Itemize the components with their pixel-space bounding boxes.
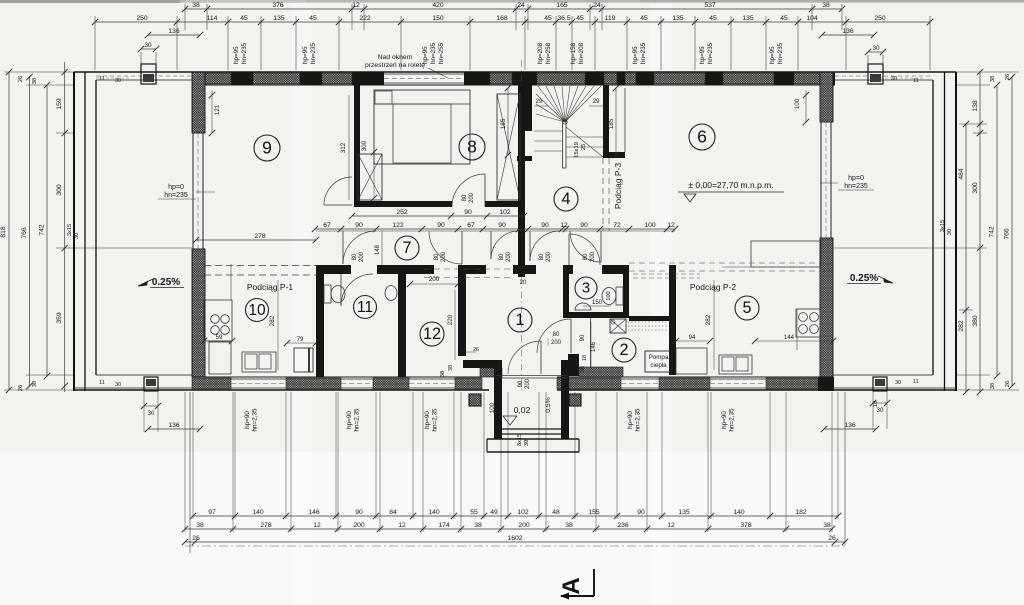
- svg-text:hn=235: hn=235: [777, 42, 784, 64]
- svg-text:80: 80: [553, 332, 560, 338]
- beam P-2 dashed: [629, 262, 833, 264]
- svg-text:24: 24: [517, 2, 525, 9]
- svg-text:hn=2,35: hn=2,35: [729, 408, 736, 431]
- dimension 144 kitchen5: [755, 340, 833, 342]
- svg-text:38: 38: [990, 383, 996, 389]
- beam dashes room2: [633, 273, 700, 275]
- svg-text:742: 742: [39, 224, 46, 236]
- wall bottom hatched segment 5: [557, 378, 621, 389]
- svg-text:102: 102: [499, 209, 511, 216]
- porch wall left: [494, 368, 502, 439]
- dimension row E (bottom rooms): [193, 515, 838, 517]
- wall top solid segment 9: [705, 72, 723, 85]
- svg-text:24: 24: [593, 2, 601, 9]
- door corridor 5: [570, 231, 601, 262]
- svg-text:25: 25: [581, 144, 587, 150]
- svg-text:80: 80: [499, 253, 505, 260]
- dimension 26 room12: [462, 351, 476, 353]
- svg-text:30: 30: [877, 408, 884, 414]
- svg-text:200: 200: [551, 340, 562, 346]
- wall porch left upper: [463, 360, 502, 368]
- svg-text:hn=2,35: hn=2,35: [354, 408, 361, 431]
- extension lines top row B: [94, 16, 96, 70]
- svg-text:49: 49: [490, 509, 498, 516]
- svg-text:90: 90: [518, 380, 524, 387]
- svg-text:236: 236: [617, 522, 629, 529]
- svg-text:90: 90: [541, 222, 549, 229]
- svg-text:20: 20: [520, 280, 527, 286]
- svg-text:30: 30: [891, 76, 897, 82]
- svg-text:94: 94: [689, 335, 696, 341]
- svg-text:przestrzeń na roletę: przestrzeń na roletę: [365, 62, 425, 69]
- window sill hatched segment top 9: [723, 73, 774, 84]
- svg-text:3x15: 3x15: [67, 224, 73, 237]
- wall room3 bottom: [563, 312, 629, 318]
- svg-text:2: 2: [619, 341, 628, 359]
- svg-text:Pompa: Pompa: [649, 354, 669, 361]
- svg-text:200: 200: [469, 192, 475, 203]
- svg-text:12: 12: [667, 222, 675, 229]
- porch steps: [502, 428, 561, 430]
- dimension 30 chimney top-right: [868, 51, 883, 53]
- svg-text:282: 282: [958, 320, 965, 332]
- door room1 hall: [537, 319, 571, 353]
- wall room2 top: [629, 316, 669, 321]
- svg-text:146: 146: [308, 509, 320, 516]
- left horizontal ticks top: [4, 71, 74, 73]
- svg-text:hn=235: hn=235: [164, 192, 188, 199]
- left dim line segments: [64, 62, 66, 392]
- svg-text:300: 300: [56, 184, 63, 196]
- window sill hatched segment top 4: [490, 73, 512, 84]
- svg-text:140: 140: [252, 509, 264, 516]
- svg-text:300: 300: [361, 140, 368, 151]
- counter room5 edge: [722, 266, 751, 268]
- kitchen10 stove: [211, 315, 220, 324]
- svg-text:hp=158: hp=158: [570, 42, 577, 64]
- svg-text:A: A: [558, 577, 585, 594]
- wall top solid segment 12: [192, 72, 205, 85]
- door room9: [324, 177, 352, 205]
- svg-text:45: 45: [544, 15, 552, 22]
- svg-text:300: 300: [972, 182, 979, 194]
- svg-text:hn=255: hn=255: [438, 42, 445, 64]
- svg-text:26: 26: [18, 76, 24, 82]
- svg-text:359: 359: [56, 312, 63, 324]
- svg-text:38: 38: [580, 366, 586, 372]
- wall bottom window 1: [231, 378, 286, 380]
- svg-text:3x15: 3x15: [517, 434, 523, 447]
- svg-text:45: 45: [709, 15, 717, 22]
- svg-text:200: 200: [518, 522, 530, 529]
- svg-text:38: 38: [32, 78, 38, 84]
- wall top solid segment 3: [352, 72, 384, 85]
- svg-text:29: 29: [593, 99, 600, 105]
- svg-text:80: 80: [539, 253, 545, 260]
- chimney top-left: [141, 64, 156, 84]
- sink room3: [575, 303, 591, 310]
- bottom extension lines rowF: [184, 392, 186, 532]
- svg-text:26: 26: [1005, 381, 1011, 387]
- wall corridor lower segment 7: [669, 265, 676, 274]
- wall top outer line: [74, 71, 956, 73]
- door room3: [569, 234, 600, 265]
- wall corridor lower segment 6: [602, 265, 629, 274]
- wall porch right upper: [568, 354, 579, 376]
- svg-text:36.5: 36.5: [557, 15, 570, 22]
- svg-text:90: 90: [498, 222, 506, 229]
- dimension 59 kitchen10: [204, 340, 232, 342]
- wall bottom window 4: [621, 378, 659, 380]
- svg-text:8: 8: [467, 136, 477, 156]
- svg-text:hn=2,35: hn=2,35: [432, 408, 439, 431]
- svg-text:79: 79: [297, 337, 304, 343]
- svg-text:11: 11: [913, 78, 919, 84]
- svg-text:hn=258: hn=258: [545, 42, 552, 64]
- svg-text:100: 100: [794, 98, 801, 109]
- wall room3 left: [563, 265, 569, 318]
- kitchen5 sink: [719, 355, 752, 374]
- svg-text:138: 138: [972, 100, 979, 112]
- wall bottom hatched segment 2: [286, 378, 341, 389]
- extension lines chimneys top: [140, 52, 142, 64]
- svg-text:10: 10: [248, 302, 266, 319]
- axis center dashed: [521, 60, 523, 85]
- svg-text:45: 45: [576, 15, 584, 22]
- wall room2 right: [669, 265, 676, 375]
- svg-text:30: 30: [524, 440, 530, 446]
- svg-text:282: 282: [705, 314, 712, 325]
- svg-text:30: 30: [895, 380, 901, 386]
- svg-text:174: 174: [438, 522, 450, 529]
- left dim line 766: [29, 77, 31, 386]
- right dim line 742: [996, 85, 998, 376]
- wall room8 bottom a: [354, 201, 452, 207]
- svg-text:0,02: 0,02: [514, 405, 531, 415]
- wall bottom inner line main: [204, 376, 482, 378]
- door corridor 3: [491, 231, 519, 259]
- dimension 282 room10: [277, 280, 279, 370]
- left dim line 818: [8, 72, 10, 390]
- svg-text:766: 766: [1004, 228, 1011, 240]
- room circle 12: [420, 322, 444, 346]
- dimension 220 room12: [454, 290, 456, 360]
- wall left main hatch lower: [192, 249, 205, 377]
- svg-text:26: 26: [828, 535, 836, 542]
- window sill hatched segment top 5: [537, 73, 585, 84]
- right horizontal ticks top: [956, 71, 1019, 73]
- paper fold highlight center: [650, 3, 672, 605]
- room circle 10: [246, 299, 269, 322]
- kitchen10 counter: [204, 300, 232, 341]
- svg-text:0.25%: 0.25%: [152, 277, 180, 288]
- svg-text:38: 38: [474, 522, 482, 529]
- svg-text:90: 90: [637, 509, 645, 516]
- kitchen10 sink: [242, 352, 276, 372]
- left horizontal tick mid: [56, 247, 192, 249]
- svg-text:150: 150: [592, 300, 603, 306]
- svg-text:11: 11: [99, 76, 105, 82]
- svg-text:100: 100: [644, 222, 656, 229]
- svg-text:72: 72: [613, 222, 621, 229]
- svg-text:hn=235: hn=235: [430, 42, 437, 64]
- svg-text:90: 90: [355, 222, 363, 229]
- kitchen5 upper counter: [751, 241, 821, 267]
- svg-text:222: 222: [359, 15, 371, 22]
- wall top solid segment 11: [821, 72, 835, 85]
- wall left main hatch upper: [192, 72, 205, 133]
- svg-text:119: 119: [605, 15, 616, 22]
- wall stair right: [603, 85, 609, 152]
- wardrobe X room8 left: [358, 154, 382, 200]
- svg-text:hp=0: hp=0: [168, 184, 184, 191]
- wall bottom inner line wings: [96, 374, 192, 376]
- svg-text:38: 38: [448, 365, 454, 371]
- left horizontal ticks bottom: [26, 374, 74, 376]
- room circle 7: [395, 236, 419, 260]
- svg-text:30: 30: [947, 229, 953, 235]
- svg-text:Podciąg P-2: Podciąg P-2: [690, 282, 737, 292]
- wall top solid segment 2: [300, 72, 322, 85]
- wall corridor lower segment 5: [566, 265, 573, 274]
- svg-text:102: 102: [517, 509, 529, 516]
- wall top inner line main: [192, 84, 835, 86]
- svg-text:84: 84: [389, 509, 397, 516]
- room circle 6: [689, 124, 715, 150]
- wall room2 partition: [590, 318, 592, 375]
- wall top solid segment 4: [464, 72, 490, 85]
- paper lower sheet tint: [0, 452, 1024, 605]
- svg-text:90: 90: [355, 509, 363, 516]
- dimension row F (bottom axes): [185, 528, 832, 530]
- right dim line 138/300/380: [979, 72, 981, 392]
- svg-text:250: 250: [136, 15, 148, 22]
- svg-text:140: 140: [428, 509, 440, 516]
- svg-text:26: 26: [192, 535, 200, 542]
- svg-text:90: 90: [580, 334, 586, 341]
- svg-text:90: 90: [437, 222, 445, 229]
- wall center duplex: [518, 207, 525, 277]
- glazing top room8: [384, 73, 464, 75]
- door corridor 4: [530, 231, 560, 261]
- svg-text:55: 55: [470, 509, 478, 516]
- bed room8: [374, 90, 470, 164]
- bottom extension lines rowG: [189, 392, 191, 553]
- svg-text:hp=95: hp=95: [302, 46, 309, 64]
- svg-text:122: 122: [392, 222, 404, 229]
- svg-text:± 0,00=27,70 m.n.p.m.: ± 0,00=27,70 m.n.p.m.: [688, 180, 773, 190]
- porch post left: [469, 394, 481, 406]
- shaft right edge: [624, 88, 626, 152]
- svg-text:420: 420: [432, 2, 444, 9]
- wall top solid segment 1: [231, 72, 253, 85]
- porch wall right: [561, 368, 569, 439]
- door front entrance: [508, 341, 541, 374]
- door room11: [341, 274, 373, 306]
- svg-text:537: 537: [704, 2, 716, 9]
- svg-text:1602: 1602: [507, 535, 522, 542]
- beam dashes room1: [424, 268, 514, 270]
- stair hub circle: [563, 120, 567, 124]
- room circle 5: [735, 296, 759, 320]
- pillow room8: [375, 91, 392, 104]
- left dim line 742: [46, 85, 48, 376]
- svg-text:38: 38: [565, 522, 573, 529]
- dimension 136 top-right: [822, 34, 874, 36]
- porch post right: [569, 394, 581, 406]
- chimney top-right: [868, 64, 883, 84]
- wall top wing dashes: [96, 75, 192, 77]
- svg-text:hn=235: hn=235: [640, 42, 647, 64]
- svg-text:38: 38: [823, 522, 831, 529]
- svg-text:135: 135: [678, 509, 690, 516]
- wall top inner line wings: [96, 79, 192, 81]
- svg-text:45: 45: [780, 15, 788, 22]
- wall right wing mid: [944, 72, 946, 391]
- svg-text:200: 200: [429, 276, 440, 283]
- svg-text:136: 136: [168, 422, 180, 429]
- svg-text:150: 150: [432, 15, 444, 22]
- svg-text:hp=95: hp=95: [699, 46, 706, 64]
- dimension 100 room6: [805, 90, 807, 122]
- wall bottom corner right: [818, 377, 834, 391]
- svg-text:0.25%: 0.25%: [850, 273, 878, 284]
- svg-text:80: 80: [462, 194, 468, 201]
- wardrobe X room8 right: [497, 94, 520, 200]
- wall corridor lower segment 1: [316, 265, 351, 274]
- extension lines top row A: [184, 4, 186, 30]
- dimension 136 top-left: [148, 34, 200, 36]
- svg-text:hn=235: hn=235: [844, 183, 868, 190]
- dim 30 bottom-right chimney: [873, 402, 887, 404]
- wall bottom window 5: [710, 378, 766, 380]
- svg-text:6: 6: [697, 126, 707, 146]
- svg-text:11: 11: [99, 380, 105, 386]
- svg-text:484: 484: [958, 168, 965, 180]
- svg-text:135: 135: [273, 15, 285, 22]
- svg-text:67: 67: [467, 222, 475, 229]
- svg-text:135: 135: [742, 15, 754, 22]
- svg-text:278: 278: [254, 233, 266, 240]
- svg-text:7: 7: [402, 239, 411, 257]
- dimension 79 fridge10: [287, 342, 316, 344]
- svg-text:30: 30: [144, 42, 152, 49]
- sink room11: [385, 286, 397, 301]
- svg-text:220: 220: [447, 314, 454, 325]
- svg-text:100: 100: [606, 291, 612, 300]
- svg-text:30: 30: [115, 78, 121, 84]
- porch level triangle: [503, 416, 517, 425]
- wall divider 12/1: [458, 265, 466, 356]
- svg-text:376: 376: [272, 2, 284, 9]
- dimension 148 corridor: [381, 231, 383, 265]
- chimney bottom extension: [143, 392, 145, 432]
- svg-text:26: 26: [473, 347, 479, 353]
- svg-text:5: 5: [742, 299, 751, 317]
- wall left wing outer: [73, 72, 75, 391]
- wall hatch right of porch: [579, 367, 623, 377]
- stair label 185 left: [507, 88, 509, 155]
- corridor upper line: [316, 230, 675, 232]
- svg-text:766: 766: [21, 227, 28, 239]
- kitchen5 stove: [799, 313, 808, 322]
- wall left main window: [192, 133, 194, 249]
- svg-text:hp=90: hp=90: [424, 411, 431, 429]
- chimney bottom-right: [873, 377, 887, 391]
- svg-text:742: 742: [989, 226, 996, 238]
- wall divider 10/11: [316, 265, 324, 377]
- svg-text:30: 30: [148, 411, 155, 417]
- wall stair left lower piece: [517, 156, 532, 161]
- room circle 2: [612, 338, 636, 362]
- door corridor 2 (room12): [429, 231, 462, 264]
- svg-text:26: 26: [1005, 74, 1011, 80]
- beam P-1 dashed: [204, 265, 318, 267]
- window sill hatched segment top 1: [205, 73, 231, 84]
- svg-text:hn=2,35: hn=2,35: [252, 408, 259, 431]
- svg-text:11: 11: [913, 379, 919, 385]
- svg-text:59: 59: [216, 335, 223, 341]
- svg-text:144: 144: [784, 335, 795, 341]
- wall center duplex upper outer leaf: [525, 85, 532, 131]
- dimension 300 room8: [373, 152, 375, 198]
- svg-text:hn=2,35: hn=2,35: [635, 408, 642, 431]
- dimension 121 room9: [211, 90, 213, 133]
- svg-text:380: 380: [972, 315, 979, 327]
- wall right main window: [820, 122, 822, 238]
- room circle 3: [575, 277, 597, 299]
- svg-text:29: 29: [536, 99, 543, 105]
- wall bottom outer line: [74, 389, 489, 391]
- svg-text:26: 26: [607, 265, 613, 271]
- svg-text:hn=235: hn=235: [310, 42, 317, 64]
- svg-text:250: 250: [874, 15, 886, 22]
- wall bottom hatched segment 7: [766, 378, 818, 389]
- room circle 1: [508, 308, 532, 332]
- svg-text:38: 38: [192, 2, 200, 9]
- svg-text:45: 45: [240, 15, 248, 22]
- svg-text:378: 378: [740, 522, 752, 529]
- svg-text:818: 818: [0, 226, 7, 238]
- window sill hatched segment top 2: [253, 73, 300, 84]
- svg-text:Nad oknem: Nad oknem: [378, 54, 413, 61]
- svg-text:Podciąg P-3: Podciąg P-3: [613, 163, 623, 210]
- window sill hatched segment top 6: [604, 73, 617, 84]
- svg-text:90: 90: [580, 222, 588, 229]
- dotted duct room2: [628, 321, 668, 323]
- svg-text:30: 30: [115, 382, 121, 388]
- svg-text:hn=235: hn=235: [707, 42, 714, 64]
- svg-text:hp=95: hp=95: [233, 46, 240, 64]
- dimension row B (top openings): [95, 21, 930, 23]
- porch threshold: [495, 375, 568, 377]
- svg-text:182: 182: [795, 509, 807, 516]
- wall right main hatch lower: [820, 238, 833, 377]
- window sill hatched segment top 7: [625, 73, 636, 84]
- washer room2: [610, 319, 626, 333]
- window sill hatched segment top 8: [654, 73, 705, 84]
- svg-text:hp=90: hp=90: [244, 411, 251, 429]
- dimension row room8 bottom: [352, 215, 524, 217]
- svg-text:200: 200: [546, 251, 552, 262]
- svg-text:18: 18: [582, 355, 588, 361]
- wall top solid segment 8: [636, 72, 654, 85]
- svg-text:148: 148: [375, 244, 381, 255]
- wall right main hatch upper: [820, 72, 833, 122]
- svg-text:26: 26: [18, 385, 24, 391]
- dimension 150 bath3: [583, 305, 611, 307]
- svg-text:200: 200: [353, 522, 365, 529]
